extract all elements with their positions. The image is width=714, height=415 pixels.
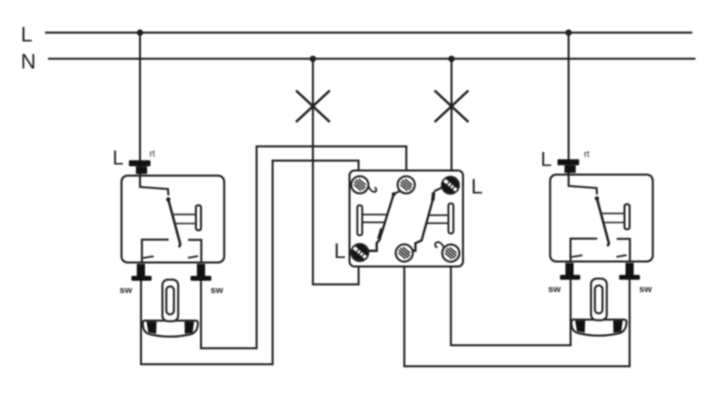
S2 screw top-right (L terminal, bold)	[442, 177, 459, 194]
S3 left contact bracket	[571, 239, 598, 262]
svg-text:L: L	[334, 240, 346, 263]
S1 right contact tick	[188, 256, 198, 258]
junction on N bus at lamp E2	[448, 56, 454, 62]
wire traveler: middle switch bottom-right screw to S3 left sw terminal	[451, 262, 571, 345]
lamp E2 cross	[435, 91, 469, 123]
S3 pivot	[595, 196, 599, 200]
S3 right contact bracket	[617, 239, 630, 262]
S2 right lever link from top-right screw	[434, 188, 442, 192]
svg-text:L: L	[541, 149, 552, 171]
junction on L bus at switch S3 feed	[565, 29, 571, 35]
switch S2 body box	[350, 171, 464, 267]
svg-text:L: L	[21, 24, 33, 47]
svg-text:N: N	[21, 51, 36, 74]
terminal S1 sw left (bottom clamp)	[137, 264, 145, 276]
S1 actuator bar	[196, 205, 201, 230]
S3 rocker base black ends	[575, 321, 623, 333]
S3 rocker paddle	[591, 279, 607, 321]
S2 contact hook at bottom-right screw	[435, 242, 444, 250]
wire traveler: S1 left sw terminal to middle switch top-left screw	[141, 161, 359, 365]
S3 right contact tick	[617, 255, 627, 257]
svg-text:sw: sw	[639, 284, 652, 295]
switch S3 body box	[550, 175, 653, 262]
S2 right actuator fork lines	[426, 215, 449, 223]
S1 left contact bracket	[142, 240, 169, 263]
S1 actuator fork lines	[174, 214, 196, 223]
terminal S3 L (top clamp)	[558, 159, 580, 165]
svg-text:L: L	[113, 148, 124, 170]
S1 right contact bracket	[188, 240, 201, 263]
S3 rocker base	[571, 320, 626, 336]
S1 left contact tick	[143, 256, 154, 258]
terminal S1 L (top clamp)	[129, 160, 151, 166]
wire S3 feed from L bus to pivot	[569, 33, 597, 194]
S3 left contact tick	[572, 255, 583, 257]
wire S1 feed from L bus to pivot	[140, 33, 168, 195]
svg-text:rt: rt	[584, 149, 590, 159]
S1 rocker base black ends	[147, 322, 195, 334]
S2 right lever blob	[431, 193, 435, 201]
S3 lever	[597, 198, 609, 245]
wire lamp E1 drop from N bus to middle switch bottom-left terminal	[313, 59, 359, 285]
svg-text:sw: sw	[211, 285, 224, 296]
terminal S3 sw right (bottom clamp)	[626, 263, 634, 275]
S2 screw bottom-right	[442, 245, 459, 262]
S2 screw bottom-left (L terminal, bold)	[351, 244, 368, 261]
svg-text:sw: sw	[548, 284, 561, 295]
S2 left lever link from top-middle screw	[394, 191, 401, 194]
S1 rocker paddle	[162, 280, 178, 322]
svg-text:rt: rt	[150, 148, 156, 158]
S3 actuator fork lines	[602, 213, 624, 222]
terminal S3 sw left (bottom clamp)	[565, 263, 573, 275]
S3 actuator bar	[625, 204, 630, 229]
two-way switch S3 (right)	[541, 33, 653, 336]
terminal S1 sw right (bottom clamp)	[197, 264, 205, 276]
S2 screw top-middle	[398, 176, 415, 193]
junction on L bus at switch S1 feed	[137, 29, 143, 35]
S2 left lever blob	[379, 229, 382, 240]
lamp E1 cross	[296, 91, 330, 123]
intermediate double switch S2 (middle)	[334, 171, 483, 267]
S2 right lever	[413, 192, 434, 251]
wire L bus	[45, 32, 692, 34]
junction on N bus at lamp E1	[310, 56, 316, 62]
S2 screw top-left	[351, 176, 368, 193]
wire traveler: middle switch bottom-middle screw to S3 right sw terminal	[404, 262, 629, 366]
S2 screw bottom-middle	[396, 244, 413, 261]
S2 left lever pivot	[392, 192, 396, 196]
S1 lever	[168, 199, 180, 246]
switch S1 body box	[122, 176, 225, 263]
svg-text:sw: sw	[120, 285, 133, 296]
S2 left actuator bar	[357, 205, 362, 235]
S2 left lever	[369, 194, 394, 251]
S1 pivot	[166, 197, 170, 201]
two-way switch S1 (left)	[113, 33, 225, 337]
wire N bus	[48, 58, 695, 60]
wire traveler: S1 right sw terminal to middle switch top-middle screw	[201, 146, 406, 348]
S2 contact hook at top-left screw	[368, 186, 376, 192]
S1 rocker base	[143, 321, 198, 337]
S3 rocker paddle slot	[595, 285, 603, 313]
S2 right actuator bar	[448, 203, 453, 233]
S1 rocker paddle slot	[166, 286, 174, 314]
wire lamp E2 drop from N bus to middle switch top-right terminal	[451, 59, 453, 177]
svg-text:L: L	[471, 176, 483, 199]
S2 left actuator fork lines	[362, 215, 387, 223]
